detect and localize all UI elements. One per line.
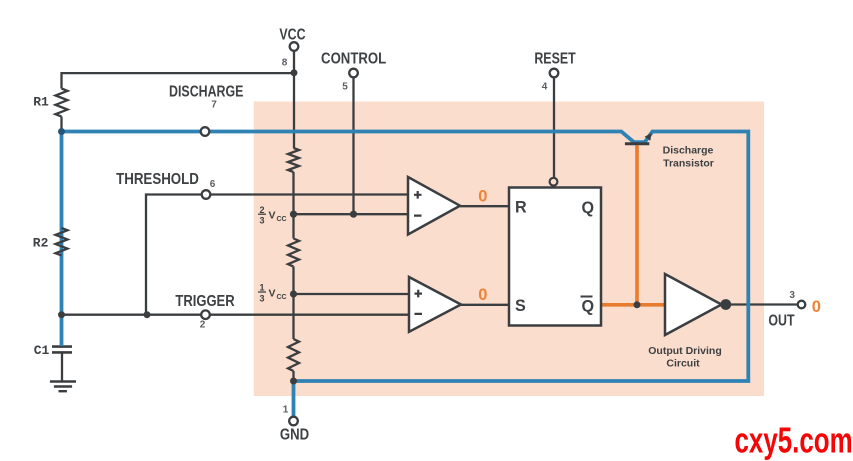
resistor R2 (over blue rail) [56, 228, 68, 255]
svg-text:0: 0 [478, 187, 487, 205]
pin 1 GND terminal [289, 417, 298, 426]
wire RESET pin lead [553, 77, 555, 178]
wire comparator1 output to latch R [460, 205, 509, 207]
svg-text:CONTROL: CONTROL [321, 51, 386, 68]
node label 2/3 Vcc [258, 205, 287, 226]
pin 3 OUT terminal [798, 301, 806, 309]
IC body shaded region [254, 102, 764, 397]
junction divider bottom / blue gnd rail [290, 378, 297, 385]
pin 7 DISCHARGE terminal [201, 127, 210, 136]
svg-text:GND: GND [280, 427, 309, 444]
wire CONTROL pin lead [352, 77, 354, 214]
svg-text:6: 6 [210, 179, 216, 190]
junction transistor base / Q-bar line [634, 301, 641, 308]
ground symbol below C1 [50, 382, 76, 392]
wire comparator2 output to latch S [461, 304, 509, 306]
svg-text:OUT: OUT [768, 311, 795, 329]
svg-text:Circuit: Circuit [666, 357, 700, 369]
transistor Q1 base bar [625, 142, 649, 145]
svg-text:R2: R2 [33, 235, 49, 250]
wire discharge net (blue) [62, 132, 749, 418]
label Output Driving Circuit [648, 345, 722, 369]
wire latch Q-bar to output driver (orange) [601, 303, 665, 307]
svg-text:CC: CC [277, 216, 287, 223]
svg-text:RESET: RESET [534, 49, 576, 67]
resistor divider top [288, 148, 299, 172]
svg-text:Q: Q [582, 296, 595, 315]
wire VCC pin lead [293, 51, 295, 73]
svg-text:S: S [515, 296, 526, 315]
svg-text:3: 3 [259, 293, 264, 303]
wire driver output to OUT pin [730, 303, 798, 305]
wire TRIGGER net [62, 314, 410, 316]
wire left blue rail R1 bottom to C1 [60, 132, 64, 347]
svg-text:2: 2 [200, 320, 206, 331]
pin 6 THRESHOLD terminal [202, 190, 211, 199]
junction control / 2-3 Vcc line [350, 211, 357, 218]
svg-text:CC: CC [277, 294, 287, 301]
node label 1/3 Vcc [258, 283, 287, 304]
driver output bubble [720, 299, 731, 310]
svg-text:V: V [269, 287, 276, 299]
svg-text:3: 3 [259, 216, 264, 226]
svg-text:DISCHARGE: DISCHARGE [169, 82, 243, 100]
latch reset inverting bubble [550, 178, 558, 186]
wire 2/3 Vcc node to comparator minus [294, 213, 411, 215]
wire R1 top lead [60, 72, 62, 89]
op-amp comparator 1 (threshold) [408, 177, 460, 235]
pin 4 RESET terminal [550, 69, 559, 78]
svg-text:1: 1 [283, 405, 289, 416]
junction threshold-trigger tie [144, 311, 151, 318]
output driving circuit buffer [665, 274, 722, 335]
resistor R1 [56, 89, 68, 117]
svg-text:Transistor: Transistor [663, 157, 714, 169]
svg-text:3: 3 [789, 290, 795, 301]
svg-text:THRESHOLD: THRESHOLD [116, 171, 199, 188]
svg-text:TRIGGER: TRIGGER [175, 293, 235, 310]
wire VCC to divider chain [293, 72, 295, 148]
wire C1 bottom lead [61, 353, 63, 381]
junction trigger/R2/C1 [58, 311, 65, 318]
wire 1/3 Vcc node to comparator plus [294, 293, 411, 295]
wire discharge transistor base (orange) [635, 145, 639, 304]
pin 8 VCC terminal [290, 42, 299, 51]
pin 2 TRIGGER terminal [201, 310, 210, 319]
wire divider chain lower-mid [292, 267, 294, 340]
wire VCC top rail to R1 [62, 72, 295, 74]
wire THRESHOLD net [146, 195, 408, 315]
svg-text:1: 1 [259, 283, 264, 293]
svg-text:Q: Q [582, 197, 595, 216]
capacitor C1 [52, 347, 72, 353]
junction VCC/R1 [291, 69, 298, 76]
SR latch U1 [509, 188, 601, 326]
svg-text:R1: R1 [33, 95, 49, 110]
wire divider chain upper-mid [292, 172, 294, 239]
svg-text:cxy5.com: cxy5.com [735, 420, 853, 460]
junction R1 bottom / blue rail [58, 128, 65, 135]
transistor Q1 emitter arrow [645, 133, 652, 141]
svg-text:8: 8 [282, 57, 288, 68]
svg-text:0: 0 [478, 286, 487, 304]
svg-text:2: 2 [259, 205, 264, 215]
svg-text:Output Driving: Output Driving [648, 345, 722, 357]
pin 5 CONTROL terminal [349, 69, 358, 78]
svg-text:5: 5 [342, 81, 348, 92]
wire divider bottom lead [292, 371, 294, 381]
resistor divider bottom [288, 339, 299, 371]
svg-text:Discharge: Discharge [663, 145, 714, 157]
label Discharge Transistor [663, 145, 714, 170]
node 1/3 Vcc [290, 290, 297, 297]
wire R1 bottom lead [60, 117, 62, 132]
svg-text:4: 4 [542, 81, 548, 92]
svg-text:VCC: VCC [279, 25, 305, 43]
resistor divider middle [288, 239, 299, 267]
svg-text:R: R [515, 197, 527, 216]
svg-text:7: 7 [211, 100, 217, 111]
svg-text:V: V [269, 210, 276, 222]
op-amp comparator 2 (trigger) [409, 277, 461, 332]
node 2/3 Vcc [290, 211, 297, 218]
svg-text:C1: C1 [34, 343, 50, 358]
svg-text:0: 0 [812, 298, 821, 316]
